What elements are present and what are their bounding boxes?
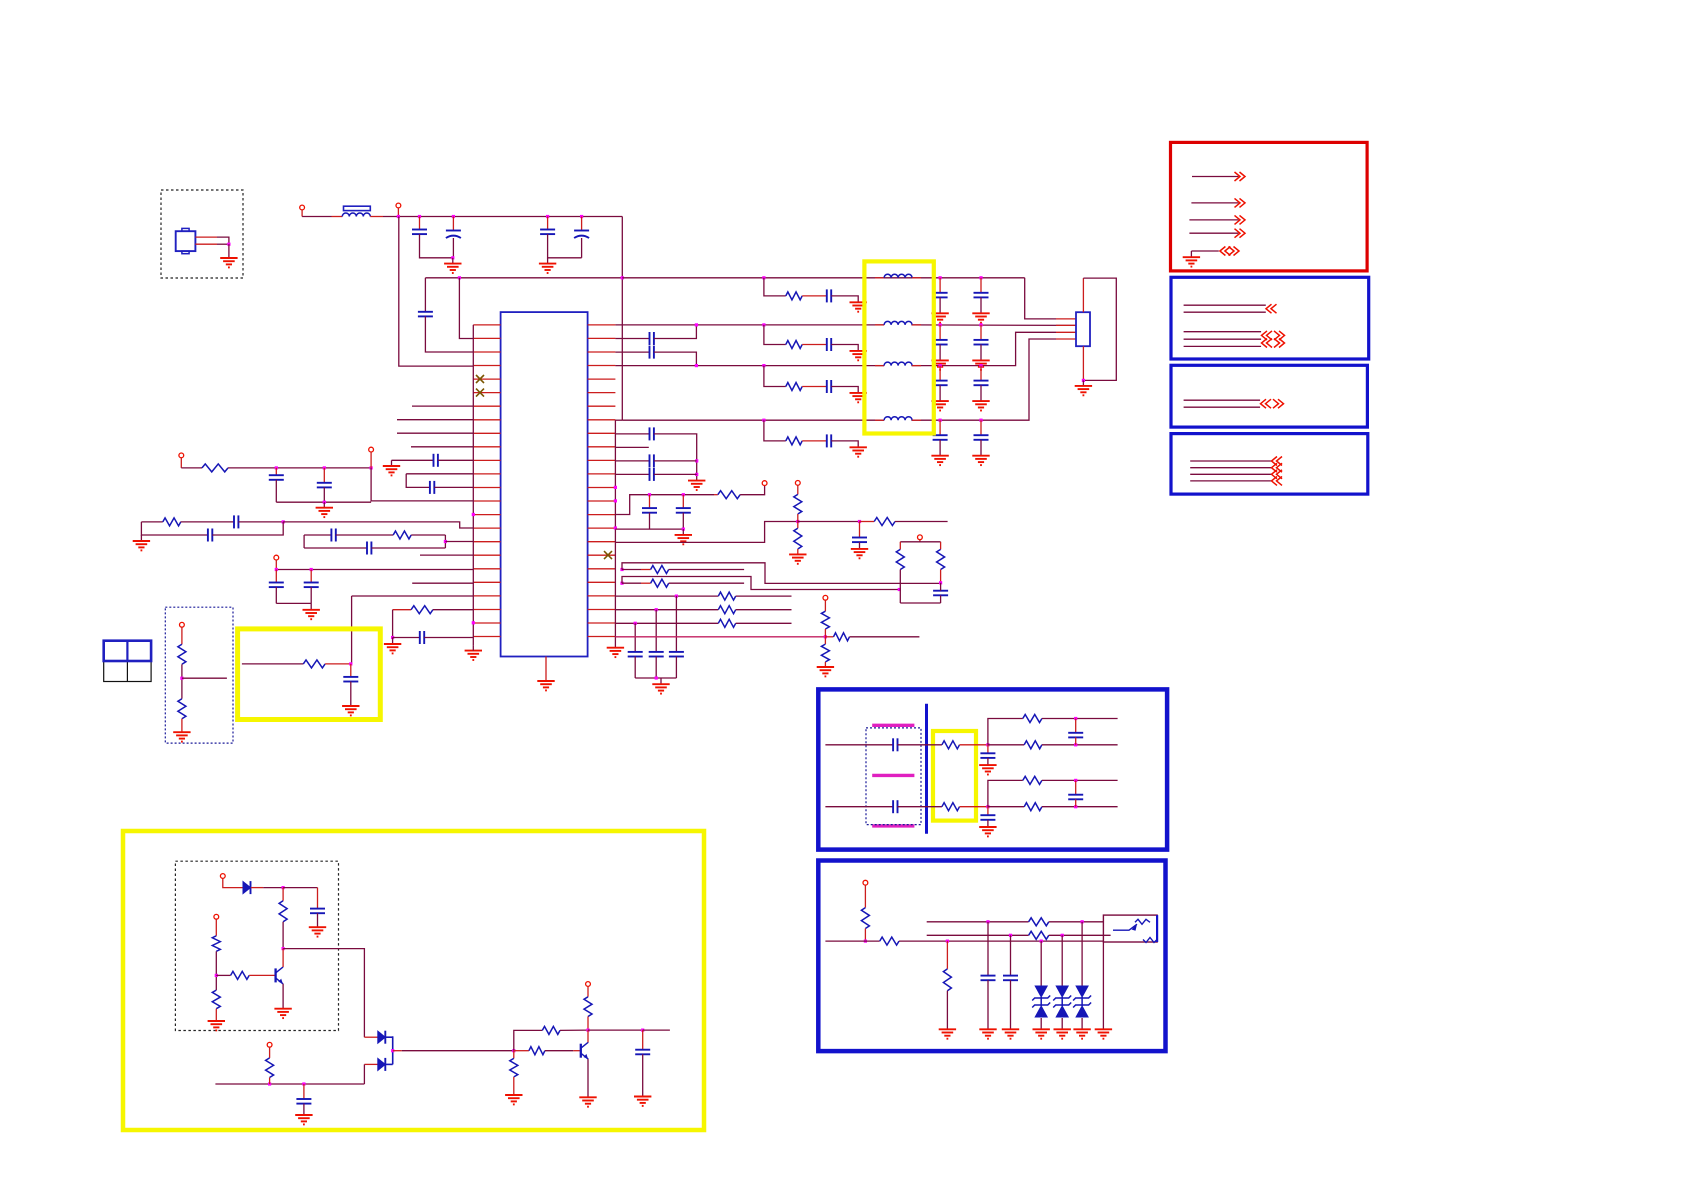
ground rowA 940.1: [931, 313, 948, 322]
junction net521r c: [858, 520, 861, 523]
wire C30 gnd: [987, 980, 989, 1029]
IC U1 body: [501, 312, 588, 656]
wire to Q2 base: [573, 1050, 581, 1052]
no-connect pin6: [476, 389, 484, 397]
U1 left pin 10 stub: [473, 446, 500, 448]
junction rowA cap 940.1: [939, 276, 942, 279]
wire lower branch: [141, 522, 208, 535]
junction out node: [512, 1049, 515, 1052]
junction net467 c: [370, 466, 373, 469]
wire cap top C981.0: [980, 366, 982, 381]
no-connect pin5: [476, 375, 484, 383]
wire chan2 line2: [988, 806, 1024, 808]
resistor R22: [231, 971, 250, 979]
wire upline2 b: [1049, 934, 1111, 936]
U1 right pin 35 stub: [588, 459, 616, 461]
wire capdrop b 623.3: [634, 657, 636, 679]
wire D1 out: [251, 887, 263, 889]
wire R22 lead: [216, 974, 230, 976]
capacitor C2 electrolytic: [446, 231, 461, 239]
ground rowB: [850, 351, 867, 360]
capacitor rowB 981.0: [974, 340, 989, 345]
ground G17: [789, 554, 806, 563]
wire bb2 l1: [1184, 399, 1261, 401]
highlight yellow box 4: [933, 731, 976, 821]
wire rail to pin4: [399, 217, 474, 367]
wire sqbox right c: [940, 583, 942, 591]
resistor Rs1: [942, 741, 960, 749]
wire R8 lead: [714, 494, 718, 496]
wire C24 top: [682, 495, 684, 508]
ground G24: [274, 1009, 291, 1018]
wire Cg1 b: [987, 758, 989, 765]
junction rail C: [452, 215, 455, 218]
wire upline1: [927, 921, 1029, 923]
wire terminal stem: [301, 210, 303, 217]
ground G11: [384, 644, 401, 653]
U1 right pin 48 stub: [588, 636, 616, 638]
diode D3: [378, 1058, 386, 1071]
terminal T14: [586, 982, 591, 987]
junction rail E: [580, 215, 583, 218]
wire chan2 in: [825, 806, 893, 808]
capacitor C31: [1003, 976, 1018, 981]
wire T9 stem: [919, 540, 921, 542]
wire Q1 emitter: [282, 984, 284, 1009]
wire T15 stem: [864, 885, 866, 908]
wire cap bot A981.0: [980, 297, 982, 313]
wire pin35: [615, 460, 649, 462]
wire to ground: [228, 244, 230, 258]
capacitor rowD 981.0: [974, 435, 989, 440]
junction bottom net b: [302, 1082, 305, 1085]
wire pin12: [406, 473, 473, 475]
arrow bb1 a: [1266, 304, 1277, 313]
U1 right pin 40 stub: [588, 527, 616, 529]
wire cap top A940.1: [939, 278, 941, 293]
J2 pin stub y339.0: [1056, 338, 1076, 340]
junction chan1: [986, 743, 989, 746]
terminal VIN: [300, 205, 305, 210]
junction rowC branch: [762, 364, 765, 367]
wire L rowD lead b: [912, 419, 921, 421]
terminal T11: [220, 874, 225, 879]
resistor Rr623.3: [718, 619, 735, 627]
wire C2 bottom: [452, 238, 454, 258]
wire gnd stem 19: [660, 678, 662, 684]
junction v696 a: [695, 459, 698, 462]
U1 left pin 20 stub: [473, 581, 500, 583]
capacitor C1: [412, 230, 427, 235]
junction chan2 m: [1074, 805, 1077, 808]
wire rowD rc mid: [802, 440, 827, 442]
capacitor Cs1: [893, 738, 897, 751]
junction box17: [444, 540, 447, 543]
capacitor C12: [331, 529, 335, 542]
capacitor rowC 940.1: [933, 381, 948, 386]
resistor R2: [163, 518, 181, 526]
capacitor C10: [234, 515, 238, 528]
wire net637 b: [424, 637, 473, 639]
wire chan1 mid: [898, 744, 942, 746]
junction cap bottoms: [323, 501, 326, 504]
wire tvs3 gnd: [1081, 1018, 1083, 1029]
wire to ground 3: [547, 258, 549, 264]
wire to ground 2: [452, 258, 454, 264]
U1 left pin 17 stub: [473, 541, 500, 543]
junction net277 a: [458, 276, 461, 279]
connector J2 body: [1076, 312, 1090, 346]
magenta bar 3: [872, 824, 914, 827]
wire right bus stem: [614, 642, 616, 648]
arrow bb1 b: [1262, 331, 1273, 340]
ground rowD: [850, 447, 867, 456]
transistor Q2: [581, 1042, 589, 1059]
resistor Ru2: [1023, 776, 1042, 784]
ground G5 left bus: [465, 651, 482, 660]
wire R10 gnd: [797, 549, 799, 554]
U1 left pin 11 stub: [473, 459, 500, 461]
wire upline1 b: [1049, 921, 1104, 923]
U1 right pin 41 stub: [588, 541, 616, 543]
junction C1C2 gnd: [451, 256, 454, 259]
wire C27 bottom: [317, 913, 319, 927]
wire C17 bottom: [350, 682, 352, 707]
wire box17 left: [303, 535, 305, 548]
junction u2 a: [1009, 934, 1012, 937]
wire rowA rc mid: [802, 295, 827, 297]
junction rowB cap 940.1: [939, 323, 942, 326]
resistor R8: [718, 491, 740, 499]
resistor R10: [794, 528, 802, 549]
inductor L rowB: [884, 321, 912, 324]
wire sqbox left a: [899, 542, 901, 550]
wire bottom net: [215, 1083, 364, 1085]
wire collector net b: [643, 1029, 670, 1031]
wire pin33: [615, 433, 649, 435]
capacitor C25: [852, 538, 867, 543]
wire R24 right: [560, 1029, 588, 1031]
U1 left pin 1 stub: [473, 324, 500, 326]
wire chan1 upline: [1042, 718, 1118, 720]
wire C25 top: [859, 522, 861, 538]
resistor R31: [1029, 931, 1049, 939]
wire C9 top: [323, 468, 325, 483]
wire redbox line 3: [1189, 219, 1238, 221]
wire J1 pin1 stub: [195, 236, 217, 238]
junction net521: [282, 520, 285, 523]
junction 596.1: [675, 595, 678, 598]
arrow out 1: [1235, 172, 1246, 181]
arrow bb1 e: [1274, 339, 1285, 348]
junction main d: [1040, 940, 1043, 943]
wire box17 top c: [411, 534, 445, 536]
junction net467 b: [323, 466, 326, 469]
resistor R25: [529, 1047, 545, 1055]
wire rowD branch: [764, 420, 786, 441]
capacitor C7: [430, 481, 434, 494]
wire pin11 left: [392, 459, 434, 461]
capacitor C rowB: [827, 338, 831, 351]
junction rowC cap 940.1: [939, 364, 942, 367]
wire chan1 line2b: [1042, 744, 1118, 746]
junction net467 a: [275, 466, 278, 469]
capacitor C21: [650, 454, 654, 467]
transformer dashed box: [866, 728, 921, 825]
wire T4 stem: [370, 452, 372, 468]
wire chan2 up: [988, 780, 1023, 806]
wire L rowB lead b: [912, 324, 921, 326]
arrow out 4: [1235, 229, 1246, 238]
junction chan2: [986, 805, 989, 808]
wire R28 bottom: [864, 929, 866, 942]
wire p44 row: [622, 582, 641, 584]
capacitor Cf1: [1068, 733, 1083, 738]
wire rowC branch: [764, 366, 786, 387]
resistor R20: [212, 936, 220, 952]
wire R2 left: [141, 521, 162, 523]
wire C23 bottom: [649, 513, 651, 529]
resistor R4: [411, 606, 433, 614]
arrow bb1 d: [1262, 339, 1273, 348]
ground rowC 981.0: [972, 401, 989, 410]
ground G8: [316, 508, 333, 517]
wire collector net: [588, 1029, 643, 1031]
ground G10: [303, 610, 320, 619]
U1 right pin 25 stub: [588, 324, 616, 326]
wire pin21: [352, 595, 474, 597]
wire chan2 out: [960, 806, 988, 808]
wire L rowA lead b: [912, 277, 921, 279]
junction C29: [641, 1029, 644, 1032]
highlight yellow box 2: [864, 261, 933, 433]
arrow bb3 0: [1272, 457, 1283, 466]
wire pin39 bend: [615, 495, 714, 515]
junction rowC link: [695, 364, 698, 367]
wire C25 bottom: [859, 542, 861, 549]
ground G14: [1075, 386, 1092, 395]
resistor R12: [651, 566, 669, 574]
U1 left pin 12 stub: [473, 473, 500, 475]
wire chan2 mid: [898, 806, 942, 808]
wire Cg2 b: [987, 820, 989, 827]
capacitor C13: [367, 542, 371, 555]
junction left bus p15: [472, 513, 475, 516]
wire C3 top: [547, 217, 549, 230]
arrow bb3 3: [1272, 476, 1283, 485]
junction Q2 collector: [586, 1029, 589, 1032]
wire J1 pin2 stub: [195, 243, 217, 245]
resistor Rr596.1: [718, 592, 735, 600]
wire R27 bottom: [587, 1017, 589, 1031]
separator blue line: [925, 704, 928, 834]
bias dashed box: [175, 861, 338, 1030]
resistor R15: [937, 549, 945, 569]
junction right bus p14: [614, 499, 617, 502]
resistor R3: [393, 531, 411, 539]
junction box left: [898, 588, 901, 591]
U1 left pin 18 stub: [473, 554, 500, 556]
capacitor C8: [269, 475, 284, 480]
wire L rowC lead a: [875, 365, 884, 367]
jack J3 contacts: [1113, 919, 1157, 942]
wire R4 left: [393, 609, 412, 611]
wire C17 top: [350, 664, 352, 677]
wire bb3 l2: [1190, 467, 1271, 469]
wire rowB right: [911, 324, 1076, 327]
wire C8 top: [275, 468, 277, 475]
wire R23 bottom: [269, 1078, 271, 1085]
ground chan1: [979, 765, 996, 774]
U1 right pin 44 stub: [588, 581, 616, 583]
wire bb1 l3: [1184, 331, 1262, 333]
wire gnd stem 9: [140, 535, 142, 541]
wire capdrop 596.1: [675, 596, 677, 652]
wire box17 top b: [336, 534, 393, 536]
U1 left pin 2 stub: [473, 337, 500, 339]
wire cap bottoms 3: [635, 677, 676, 679]
wire Cf2 a: [1075, 780, 1077, 794]
wire gnd stem 16: [682, 529, 684, 535]
junction base net: [215, 974, 218, 977]
wire J2 gnd stem: [1082, 380, 1084, 386]
U1 right pin 27 stub: [588, 351, 616, 353]
wire C8 bottom: [275, 480, 277, 502]
wire box17 bottom b: [371, 547, 445, 549]
wire R13 lead: [641, 582, 651, 584]
wire Cf1 b: [1075, 737, 1077, 744]
resistor R21: [212, 990, 220, 1009]
terminal T4: [369, 447, 374, 452]
capacitor C18: [650, 332, 654, 345]
wire cap top D940.1: [939, 420, 941, 435]
terminal T13: [267, 1042, 272, 1047]
capacitor Cg2: [980, 815, 995, 820]
ground G27: [579, 1097, 596, 1106]
wire net637 a: [393, 637, 420, 639]
wire gnd stem 11: [392, 638, 394, 645]
arrow in 5a: [1220, 247, 1231, 256]
wire bb1 l4: [1184, 338, 1262, 340]
terminal T6: [180, 622, 185, 627]
wire bead lead left: [332, 216, 343, 218]
wire D2 anode lead: [364, 1036, 377, 1038]
wire R16 lead: [825, 636, 833, 638]
wire sqbox right b: [940, 570, 942, 583]
wire tvs3 stem: [1081, 922, 1083, 986]
capacitor C29: [635, 1050, 650, 1055]
wire bb3 l3: [1190, 473, 1271, 475]
U1 right pin 26 stub: [588, 337, 616, 339]
wire cap bot C981.0: [980, 385, 982, 401]
wire tvs1 stem: [1040, 941, 1042, 986]
wire box17 top: [304, 534, 331, 536]
wire C28 stem: [303, 1084, 305, 1099]
TVS diode Z2: [1053, 986, 1071, 1017]
terminal T12: [214, 914, 219, 919]
wire R20R21: [215, 951, 217, 990]
junction p43: [620, 568, 623, 571]
wire box17 bottom: [304, 547, 367, 549]
junction chan1 u: [1074, 717, 1077, 720]
TVS diode Z1: [1032, 986, 1050, 1017]
wire net467 to pin14: [371, 468, 473, 501]
wire C14 top: [275, 570, 277, 583]
wire redbox line 1: [1192, 176, 1238, 178]
wire L rowA lead a: [875, 277, 884, 279]
wire T6 stem: [181, 627, 183, 644]
wire D3 anode drop: [363, 1064, 365, 1084]
junction u2 b: [1061, 934, 1064, 937]
wire T14 stem: [587, 986, 589, 996]
wire T11 stem: [223, 878, 243, 887]
junction D1: [282, 886, 285, 889]
wire C28 bottom: [303, 1104, 305, 1115]
capacitor C15: [304, 583, 319, 588]
junction diode out: [391, 1049, 394, 1052]
wire redbox gnd stem: [1190, 251, 1192, 257]
wire T8 stem: [797, 485, 799, 494]
wire Cg1 a: [987, 745, 989, 754]
annotation blue box 1: [1171, 277, 1369, 359]
junction u1 a: [986, 920, 989, 923]
wire rowA branch: [764, 278, 786, 296]
U1 left pin 13 stub: [473, 487, 500, 489]
wire pin32: [615, 419, 622, 421]
ground G7: [383, 466, 400, 475]
highlight yellow box 3: [123, 831, 704, 1130]
ground rowC 940.1: [931, 401, 948, 410]
wire C15 top: [310, 570, 312, 583]
wire rowA to conn: [1025, 278, 1056, 319]
ferrite bead FB1 body: [344, 206, 371, 210]
wire C5 to pin3: [425, 316, 473, 352]
wire chan1 up: [988, 719, 1023, 745]
wire net569: [276, 569, 473, 571]
capacitor C24: [676, 508, 691, 513]
wire U1 bottom pin: [545, 657, 547, 682]
wire pin9: [397, 432, 473, 434]
U1 right pin 32 stub: [588, 419, 616, 421]
wire tvs2 stem: [1061, 935, 1063, 986]
wire cap top D981.0: [980, 420, 982, 435]
wire pin11 gnd stem: [391, 460, 393, 466]
junction rail A: [397, 215, 400, 218]
jack J3 body: [1103, 915, 1157, 942]
wire cap bottoms: [276, 501, 371, 503]
wire rowB: [615, 324, 884, 326]
wire R13 right: [669, 582, 744, 584]
wire R32 gnd: [946, 991, 948, 1030]
junction bottom net a: [268, 1082, 271, 1085]
junction net494 b: [682, 493, 685, 496]
arrow bb2 b: [1273, 399, 1284, 408]
U1 left pin 14 stub: [473, 500, 500, 502]
junction J1 ground node: [227, 243, 230, 246]
wire sqbox left b: [899, 570, 901, 604]
wire cap top B940.1: [939, 325, 941, 340]
wire pin41: [615, 522, 797, 543]
wire p44 jog: [622, 577, 899, 590]
wire pin48 row: [615, 636, 825, 638]
U1 left pin 3 stub: [473, 351, 500, 353]
wire net521r b: [798, 521, 860, 523]
resistor R29: [880, 937, 899, 945]
junction rowD cap 940.1: [939, 419, 942, 422]
U1 right pin 28 stub: [588, 365, 616, 367]
wire bb1 l5: [1184, 345, 1262, 347]
wire R11 lead: [860, 521, 875, 523]
